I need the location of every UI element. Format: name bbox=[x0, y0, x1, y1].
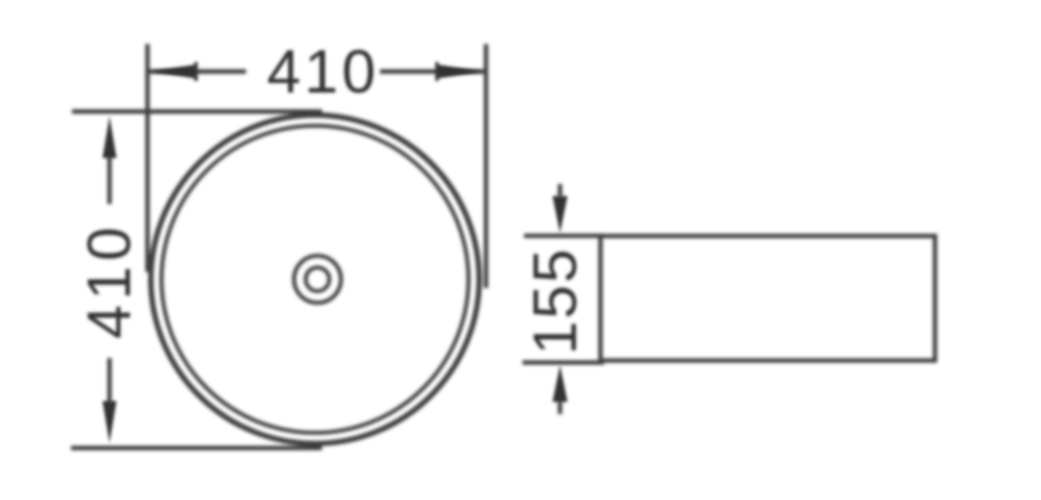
drain inner circle bbox=[306, 268, 330, 292]
width dim left arrowhead bbox=[151, 65, 196, 79]
left vertical extension line of width dim bbox=[145, 44, 149, 272]
basin outer rim (top view) bbox=[151, 115, 479, 443]
height dim up arrowhead bbox=[103, 116, 117, 158]
height dim down arrowhead bbox=[103, 401, 117, 443]
width dimension line left segment bbox=[148, 69, 247, 73]
drain outer circle bbox=[294, 256, 341, 303]
right vertical extension line of width dim bbox=[484, 44, 488, 288]
svg-text:155: 155 bbox=[521, 247, 589, 355]
svg-text:410: 410 bbox=[75, 222, 143, 339]
side view extension line top bbox=[524, 234, 604, 238]
155 dim arrow tails bbox=[558, 184, 562, 198]
height dimension line lower segment bbox=[107, 358, 111, 404]
svg-text:410: 410 bbox=[267, 38, 379, 106]
width dim right arrowhead bbox=[437, 65, 483, 79]
height dimension line upper segment bbox=[107, 155, 111, 204]
bottom tangent extension line bbox=[71, 446, 322, 450]
width dimension line right segment bbox=[380, 69, 486, 73]
155 dim bottom arrowhead (points up) bbox=[553, 365, 568, 402]
top tangent extension line bbox=[72, 109, 322, 113]
155 dim top arrowhead (points down) bbox=[553, 196, 568, 233]
side view extension line bottom bbox=[523, 360, 605, 364]
basin inner rim (top view) bbox=[162, 126, 469, 433]
basin body outline (side view) bbox=[601, 236, 936, 361]
